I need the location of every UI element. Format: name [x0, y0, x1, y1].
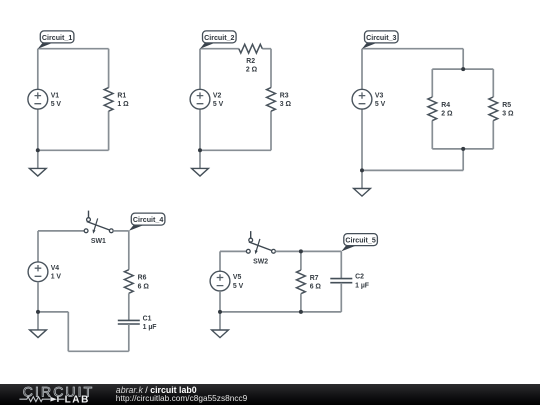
wire C2 upper C5 — [340, 251, 342, 278]
resistor R1 — [104, 88, 129, 112]
svg-text:http://circuitlab.com/c8ga55zs: http://circuitlab.com/c8ga55zs8ncc9 — [116, 393, 248, 403]
node junction C1 — [36, 148, 40, 152]
svg-text:5 V: 5 V — [233, 283, 244, 290]
ground C4 — [30, 330, 47, 338]
svg-text:Circuit_2: Circuit_2 — [204, 34, 234, 42]
resistor R7 — [297, 270, 322, 294]
capacitor C2 — [330, 274, 369, 290]
svg-text:V4: V4 — [51, 265, 60, 272]
wire ground stub C5 — [219, 312, 221, 330]
wire left upper C3 — [361, 49, 363, 90]
wire top C3 — [362, 48, 463, 50]
label Circuit_4 — [129, 213, 165, 231]
resistor R2 — [239, 44, 262, 73]
svg-text:Circuit_1: Circuit_1 — [42, 34, 72, 42]
wire ground stub C3 — [361, 170, 363, 188]
svg-text:1 µF: 1 µF — [143, 324, 157, 331]
wire top left C2 — [200, 48, 239, 50]
wire bottom C4 — [68, 350, 129, 352]
svg-text:V3: V3 — [375, 92, 384, 99]
voltage source V3 — [352, 89, 386, 109]
svg-text:2 Ω: 2 Ω — [246, 66, 258, 73]
svg-text:LAB: LAB — [65, 395, 90, 405]
svg-text:R1: R1 — [117, 93, 126, 100]
svg-text:C1: C1 — [143, 315, 152, 322]
wire top C1 — [38, 48, 109, 50]
footer content — [0, 384, 540, 405]
switch SW1 — [84, 211, 113, 245]
node top mid C3 — [461, 67, 465, 71]
wire top left C4 — [38, 230, 84, 232]
wire mid right C4 — [128, 293, 130, 320]
wire top right C2 — [262, 48, 271, 50]
wire right upper C2 — [270, 49, 272, 88]
svg-text:6 Ω: 6 Ω — [138, 283, 150, 290]
label Circuit_3 — [362, 31, 398, 49]
wire right branch lower C3 — [492, 121, 494, 149]
wire ground stub C2 — [199, 150, 201, 168]
node bottom R7 C5 — [299, 310, 303, 314]
svg-text:V1: V1 — [51, 92, 60, 99]
wire left upper C5 — [219, 251, 221, 271]
svg-text:3 Ω: 3 Ω — [280, 101, 292, 108]
ground C3 — [354, 189, 371, 197]
svg-text:R5: R5 — [502, 102, 511, 109]
svg-text:5 V: 5 V — [51, 101, 62, 108]
label Circuit_1 — [38, 31, 74, 49]
node junction C3 — [360, 168, 364, 172]
wire return C4 — [38, 311, 68, 313]
wire below cap C4 — [128, 324, 130, 351]
wire right branch upper C3 — [492, 69, 494, 97]
wire left branch upper C3 — [431, 69, 433, 97]
wire top bar C3 — [432, 68, 493, 70]
svg-text:6 Ω: 6 Ω — [310, 284, 322, 291]
wire bottom C3 — [362, 169, 463, 171]
svg-text:R6: R6 — [138, 275, 147, 282]
wire left lower C1 — [37, 109, 39, 150]
svg-text:1 Ω: 1 Ω — [117, 101, 129, 108]
wire R7 lower C5 — [300, 294, 302, 312]
wire mid drop C3 — [462, 49, 464, 69]
wire ground stub C1 — [37, 150, 39, 168]
node top R7 C5 — [299, 249, 303, 253]
wire bottom C5 — [220, 311, 341, 313]
svg-text:Circuit_3: Circuit_3 — [366, 34, 396, 42]
ground C5 — [212, 330, 229, 338]
node junction C4 — [36, 310, 40, 314]
svg-text:5 V: 5 V — [213, 101, 224, 108]
wire left branch lower C3 — [431, 121, 433, 149]
wire left upper C1 — [37, 49, 39, 90]
wire left upper C4 — [37, 231, 39, 262]
wire C2 lower C5 — [340, 283, 342, 312]
ground C2 — [192, 168, 209, 176]
wire R7 upper C5 — [300, 251, 302, 270]
svg-text:V2: V2 — [213, 92, 222, 99]
node junction C2 — [198, 148, 202, 152]
voltage source V1 — [28, 89, 62, 109]
wire right upper C4 — [128, 231, 130, 270]
capacitor C1 — [118, 315, 157, 331]
wire riser C4 — [67, 312, 69, 351]
wire ground stub C4 — [37, 312, 39, 330]
svg-text:R7: R7 — [310, 275, 319, 282]
wire left lower C4 — [37, 282, 39, 312]
svg-text:R2: R2 — [246, 58, 255, 65]
svg-text:1 V: 1 V — [51, 274, 62, 281]
svg-text:Circuit_5: Circuit_5 — [345, 237, 375, 245]
wire left lower C3 — [361, 109, 363, 170]
node junction C5 — [218, 310, 222, 314]
wire right lower C2 — [270, 111, 272, 150]
svg-text:5 V: 5 V — [375, 101, 386, 108]
resistor R4 — [428, 97, 453, 121]
svg-text:2 Ω: 2 Ω — [441, 111, 453, 118]
label Circuit_5 — [341, 234, 377, 252]
wire bottom bar C3 — [432, 148, 493, 150]
wire bottom C1 — [38, 149, 109, 151]
svg-text:SW2: SW2 — [253, 258, 268, 265]
footer bar — [0, 384, 540, 405]
wire left upper C2 — [199, 49, 201, 90]
wire top left C5 — [220, 250, 246, 252]
label Circuit_2 — [200, 31, 236, 49]
svg-text:SW1: SW1 — [91, 238, 106, 245]
svg-text:Circuit_4: Circuit_4 — [133, 216, 163, 224]
svg-text:R3: R3 — [280, 93, 289, 100]
svg-text:V5: V5 — [233, 274, 242, 281]
svg-text:1 µF: 1 µF — [355, 282, 369, 289]
resistor R5 — [489, 97, 514, 121]
wire right lower C1 — [108, 111, 110, 150]
voltage source V5 — [210, 271, 244, 291]
wire bottom C2 — [200, 149, 271, 151]
svg-text:R4: R4 — [441, 102, 450, 109]
node bottom mid C3 — [461, 147, 465, 151]
switch SW2 — [246, 231, 275, 265]
voltage source V4 — [28, 262, 61, 282]
resistor R6 — [124, 270, 149, 294]
wire left lower C5 — [219, 291, 221, 312]
svg-text:3 Ω: 3 Ω — [502, 111, 514, 118]
svg-text:C2: C2 — [355, 274, 364, 281]
logo diode symbol — [50, 397, 57, 402]
logo resistor zigzag — [19, 397, 50, 402]
wire left lower C2 — [199, 109, 201, 150]
wire right upper C1 — [108, 49, 110, 88]
ground C1 — [29, 168, 46, 176]
wire mid drop2 C3 — [462, 149, 464, 171]
resistor R3 — [267, 88, 292, 112]
wire top right C4 — [113, 230, 129, 232]
voltage source V2 — [190, 89, 224, 109]
wire top right C5 — [275, 250, 341, 252]
